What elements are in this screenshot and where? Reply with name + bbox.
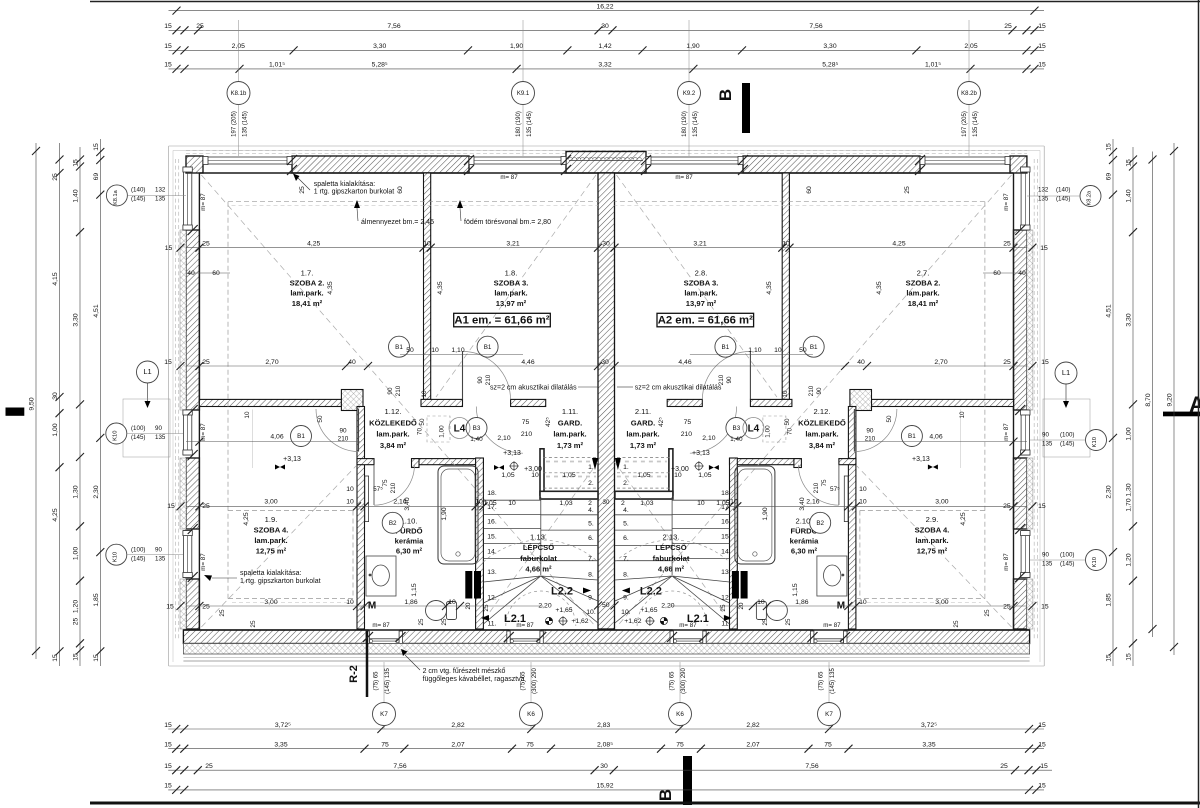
svg-text:40: 40 — [1018, 270, 1026, 277]
svg-text:1,73 m²: 1,73 m² — [630, 441, 657, 450]
svg-text:L2.2: L2.2 — [551, 586, 573, 598]
svg-text:20: 20 — [465, 602, 472, 609]
svg-text:K6: K6 — [527, 711, 535, 718]
svg-text:GARD.: GARD. — [631, 418, 655, 427]
svg-text:13.: 13. — [487, 569, 497, 576]
svg-text:15: 15 — [1106, 143, 1113, 151]
svg-text:K10: K10 — [1092, 437, 1098, 447]
svg-text:lam.park.: lam.park. — [254, 536, 287, 545]
svg-text:3,72⁵: 3,72⁵ — [921, 722, 937, 729]
svg-text:1,05: 1,05 — [637, 472, 650, 479]
svg-text:1,10: 1,10 — [451, 347, 464, 354]
svg-text:(75) 65: (75) 65 — [374, 671, 380, 691]
svg-text:50: 50 — [406, 347, 414, 354]
svg-text:18,41 m²: 18,41 m² — [908, 299, 939, 308]
svg-text:25: 25 — [205, 763, 213, 770]
svg-text:A1 em. = 61,66 m²: A1 em. = 61,66 m² — [454, 315, 549, 327]
svg-text:50: 50 — [419, 418, 426, 426]
svg-text:4,25: 4,25 — [52, 508, 59, 521]
svg-text:25: 25 — [1003, 241, 1011, 248]
svg-text:4,15: 4,15 — [52, 272, 59, 285]
svg-text:SZOBA 4.: SZOBA 4. — [915, 526, 950, 535]
svg-text:B3: B3 — [733, 425, 741, 432]
svg-text:1,20: 1,20 — [73, 600, 80, 613]
svg-text:GARD.: GARD. — [558, 418, 582, 427]
svg-text:9,50: 9,50 — [29, 397, 36, 410]
svg-text:15.: 15. — [487, 533, 497, 540]
svg-text:1,00: 1,00 — [764, 425, 771, 438]
svg-text:15: 15 — [93, 143, 100, 151]
svg-text:210: 210 — [395, 385, 402, 396]
svg-text:2 cm vtg. fűrészelt mészkő: 2 cm vtg. fűrészelt mészkő — [423, 668, 506, 675]
svg-text:B1: B1 — [395, 344, 403, 351]
svg-text:m= 87: m= 87 — [372, 622, 390, 629]
svg-text:m= 87: m= 87 — [200, 553, 207, 571]
svg-text:8.: 8. — [623, 571, 629, 578]
svg-text:1,73 m²: 1,73 m² — [557, 441, 584, 450]
svg-text:12.: 12. — [487, 594, 497, 601]
svg-text:2.9.: 2.9. — [926, 515, 939, 524]
svg-text:(145): (145) — [1060, 561, 1074, 568]
svg-text:1,15: 1,15 — [411, 583, 418, 596]
svg-text:210: 210 — [681, 431, 693, 438]
svg-text:7,56: 7,56 — [387, 23, 400, 30]
svg-text:9,20: 9,20 — [1167, 393, 1174, 406]
svg-text:faburkolat: faburkolat — [653, 554, 690, 563]
svg-text:18.: 18. — [721, 490, 731, 497]
svg-text:135 (145): 135 (145) — [527, 111, 533, 137]
svg-text:25: 25 — [202, 503, 210, 510]
svg-text:42⁵: 42⁵ — [545, 417, 552, 427]
svg-text:16,22: 16,22 — [596, 3, 613, 10]
svg-text:SZOBA 3.: SZOBA 3. — [494, 279, 529, 288]
svg-text:15: 15 — [167, 503, 175, 510]
svg-text:R-2: R-2 — [348, 665, 360, 683]
svg-text:(145): (145) — [1056, 196, 1070, 203]
svg-text:69: 69 — [1106, 173, 1113, 181]
svg-text:6,30 m²: 6,30 m² — [791, 547, 818, 556]
svg-text:1,01⁵: 1,01⁵ — [269, 62, 285, 69]
svg-text:57⁵: 57⁵ — [830, 486, 840, 493]
svg-text:5.: 5. — [588, 520, 594, 527]
svg-text:90: 90 — [339, 428, 347, 435]
svg-text:69: 69 — [93, 173, 100, 181]
svg-text:10: 10 — [531, 472, 539, 479]
svg-text:25: 25 — [1003, 604, 1011, 611]
svg-text:2: 2 — [621, 500, 625, 507]
svg-text:15: 15 — [164, 722, 172, 729]
svg-text:11.: 11. — [721, 620, 730, 627]
svg-text:210: 210 — [338, 436, 349, 443]
svg-text:30: 30 — [603, 499, 610, 506]
svg-text:1,03: 1,03 — [559, 500, 572, 507]
svg-text:K8.2a: K8.2a — [1087, 190, 1093, 206]
svg-text:lam.park.: lam.park. — [290, 289, 323, 298]
svg-text:10: 10 — [346, 486, 354, 493]
svg-text:15,92: 15,92 — [596, 783, 613, 790]
svg-text:LÉPCSŐ: LÉPCSŐ — [523, 543, 554, 552]
svg-text:4,35: 4,35 — [876, 281, 883, 294]
svg-text:15: 15 — [1126, 159, 1133, 167]
svg-text:10: 10 — [774, 347, 782, 354]
svg-text:lam.park.: lam.park. — [915, 536, 948, 545]
svg-text:4,35: 4,35 — [437, 281, 444, 294]
svg-text:50: 50 — [784, 418, 791, 426]
svg-text:lam.park.: lam.park. — [626, 430, 659, 439]
svg-text:90: 90 — [866, 428, 874, 435]
svg-text:1,90: 1,90 — [441, 507, 448, 520]
svg-text:15: 15 — [1041, 359, 1049, 366]
svg-text:B2: B2 — [816, 520, 824, 527]
svg-text:50: 50 — [886, 415, 893, 423]
svg-text:kerámia: kerámia — [395, 537, 424, 546]
svg-text:25: 25 — [219, 609, 226, 617]
svg-text:K10: K10 — [112, 431, 118, 441]
svg-text:15: 15 — [93, 654, 100, 662]
svg-text:1,86: 1,86 — [404, 599, 417, 606]
svg-text:10: 10 — [859, 486, 867, 493]
svg-text:10: 10 — [423, 241, 431, 248]
svg-text:15: 15 — [1040, 763, 1048, 770]
svg-text:10.: 10. — [621, 609, 631, 616]
svg-text:12.: 12. — [721, 594, 731, 601]
svg-text:(145): (145) — [131, 555, 145, 562]
svg-text:15: 15 — [1038, 783, 1046, 790]
svg-text:3,40: 3,40 — [404, 497, 411, 510]
svg-text:10: 10 — [730, 499, 738, 506]
svg-text:7.: 7. — [623, 556, 629, 563]
svg-text:15: 15 — [164, 783, 172, 790]
svg-text:(100): (100) — [1060, 552, 1074, 559]
svg-text:lam.park.: lam.park. — [553, 430, 586, 439]
svg-text:m= 87: m= 87 — [823, 622, 841, 629]
svg-text:SZOBA 3.: SZOBA 3. — [684, 279, 719, 288]
svg-text:70: 70 — [786, 428, 793, 436]
svg-text:90: 90 — [1042, 552, 1049, 559]
svg-text:4.: 4. — [623, 507, 629, 514]
svg-text:m= 87: m= 87 — [1003, 423, 1010, 441]
svg-text:4,51: 4,51 — [93, 304, 100, 317]
svg-text:210: 210 — [865, 436, 876, 443]
svg-text:2.12.: 2.12. — [814, 407, 831, 416]
svg-text:90: 90 — [1042, 432, 1049, 439]
svg-text:135: 135 — [155, 555, 166, 562]
svg-text:L2.1: L2.1 — [687, 613, 709, 625]
svg-text:60: 60 — [397, 186, 404, 194]
svg-text:13.: 13. — [721, 569, 731, 576]
svg-text:L1: L1 — [143, 367, 151, 376]
svg-text:25: 25 — [196, 23, 204, 30]
svg-text:1.7.: 1.7. — [301, 268, 314, 277]
svg-text:3,30: 3,30 — [1126, 313, 1133, 326]
svg-text:lam.park.: lam.park. — [494, 289, 527, 298]
svg-text:4,51: 4,51 — [1106, 304, 1113, 317]
svg-text:kerámia: kerámia — [790, 537, 819, 546]
svg-text:30: 30 — [602, 241, 610, 248]
svg-text:3,00: 3,00 — [935, 599, 948, 606]
svg-text:25: 25 — [73, 618, 80, 626]
svg-text:K10: K10 — [1092, 557, 1098, 567]
svg-text:1,03: 1,03 — [640, 500, 653, 507]
svg-text:10: 10 — [431, 347, 439, 354]
svg-text:+1,65: +1,65 — [555, 607, 572, 614]
svg-text:25: 25 — [762, 618, 769, 625]
svg-text:1,00: 1,00 — [73, 547, 80, 560]
svg-text:SZOBA 4.: SZOBA 4. — [254, 526, 289, 535]
svg-text:180 (190): 180 (190) — [516, 111, 522, 137]
svg-text:(145) 135: (145) 135 — [830, 667, 836, 693]
svg-text:3,84 m²: 3,84 m² — [809, 441, 836, 450]
svg-text:15: 15 — [164, 43, 172, 50]
svg-text:7.: 7. — [588, 556, 594, 563]
svg-text:+1,62: +1,62 — [571, 618, 588, 625]
svg-text:1,40: 1,40 — [1126, 189, 1133, 202]
svg-text:1,40: 1,40 — [73, 189, 80, 202]
svg-text:1.9.: 1.9. — [265, 515, 278, 524]
svg-text:135: 135 — [1038, 196, 1049, 203]
svg-text:25: 25 — [953, 620, 960, 628]
svg-text:75: 75 — [676, 742, 684, 749]
svg-text:15: 15 — [166, 604, 174, 611]
svg-text:+1,65: +1,65 — [640, 607, 657, 614]
svg-text:B: B — [716, 89, 735, 101]
svg-text:3,35: 3,35 — [274, 742, 287, 749]
svg-text:4,46: 4,46 — [521, 359, 534, 366]
svg-text:1,05: 1,05 — [698, 472, 711, 479]
svg-text:210: 210 — [718, 374, 725, 385]
svg-text:1,86: 1,86 — [795, 599, 808, 606]
svg-text:(300) 290: (300) 290 — [681, 667, 687, 693]
svg-text:1.12.: 1.12. — [385, 407, 402, 416]
svg-text:2.: 2. — [588, 480, 594, 487]
svg-text:2,10: 2,10 — [497, 435, 510, 442]
svg-text:2.7.: 2.7. — [917, 268, 930, 277]
svg-text:210: 210 — [521, 431, 533, 438]
svg-text:1.13.: 1.13. — [530, 533, 547, 542]
svg-text:M: M — [368, 601, 376, 612]
svg-text:15: 15 — [1038, 43, 1046, 50]
svg-text:15: 15 — [1126, 653, 1133, 661]
svg-text:135 (145): 135 (145) — [243, 111, 249, 137]
svg-text:9.: 9. — [623, 594, 629, 601]
svg-text:10: 10 — [697, 500, 705, 507]
svg-text:L2.2: L2.2 — [640, 586, 662, 598]
svg-text:m= 87: m= 87 — [1003, 553, 1010, 571]
svg-text:2.11.: 2.11. — [635, 407, 651, 416]
svg-text:10: 10 — [448, 599, 456, 606]
svg-text:2,08⁵: 2,08⁵ — [597, 742, 613, 749]
svg-text:4,66 m²: 4,66 m² — [525, 565, 552, 574]
svg-text:8.: 8. — [588, 571, 594, 578]
svg-text:2,07: 2,07 — [451, 742, 464, 749]
svg-text:90: 90 — [816, 387, 823, 395]
svg-text:15: 15 — [73, 653, 80, 661]
svg-text:13,97 m²: 13,97 m² — [496, 299, 527, 308]
svg-text:(75) 65: (75) 65 — [670, 671, 676, 691]
svg-text:18.: 18. — [487, 490, 497, 497]
svg-text:B1: B1 — [297, 433, 305, 440]
svg-text:10: 10 — [782, 390, 789, 398]
svg-text:faburkolat: faburkolat — [520, 554, 557, 563]
svg-text:1,40: 1,40 — [730, 436, 743, 443]
svg-text:1,00: 1,00 — [52, 423, 59, 436]
svg-text:2.13.: 2.13. — [663, 533, 680, 542]
svg-text:(140): (140) — [131, 187, 145, 194]
svg-text:3,84 m²: 3,84 m² — [380, 441, 407, 450]
svg-text:25: 25 — [250, 620, 257, 628]
svg-text:10: 10 — [244, 411, 251, 419]
svg-text:10: 10 — [346, 499, 354, 506]
svg-text:2.: 2. — [623, 480, 629, 487]
svg-text:L1: L1 — [1062, 368, 1070, 377]
svg-text:B1: B1 — [908, 433, 916, 440]
svg-text:25: 25 — [1000, 763, 1008, 770]
svg-text:20: 20 — [738, 602, 745, 609]
svg-text:40: 40 — [348, 359, 356, 366]
svg-text:15: 15 — [164, 763, 172, 770]
svg-text:2,30: 2,30 — [1106, 485, 1113, 498]
svg-text:2,82: 2,82 — [746, 722, 759, 729]
svg-text:B: B — [656, 789, 675, 801]
svg-text:B3: B3 — [473, 425, 481, 432]
svg-text:135: 135 — [155, 434, 166, 441]
svg-text:3,30: 3,30 — [73, 313, 80, 326]
svg-text:90: 90 — [726, 376, 733, 384]
svg-text:25: 25 — [202, 241, 210, 248]
svg-text:16.: 16. — [721, 518, 731, 525]
svg-text:210: 210 — [485, 374, 492, 385]
svg-text:25: 25 — [720, 604, 727, 612]
svg-text:(75) 65: (75) 65 — [819, 671, 825, 691]
svg-text:3,35: 3,35 — [922, 742, 935, 749]
svg-text:1,15: 1,15 — [792, 583, 799, 596]
svg-text:L4: L4 — [454, 424, 466, 435]
svg-text:1,30: 1,30 — [73, 485, 80, 498]
svg-text:25: 25 — [441, 618, 448, 625]
svg-text:1,90: 1,90 — [510, 43, 523, 50]
svg-text:3,32: 3,32 — [598, 62, 611, 69]
svg-text:A2 em. = 61,66 m²: A2 em. = 61,66 m² — [658, 315, 753, 327]
svg-text:210: 210 — [808, 385, 815, 396]
svg-text:15: 15 — [73, 159, 80, 167]
svg-text:(140): (140) — [1056, 187, 1070, 194]
svg-text:14.: 14. — [721, 549, 731, 556]
svg-text:sz=2 cm akusztikai dilatálás: sz=2 cm akusztikai dilatálás — [635, 385, 722, 392]
svg-text:4,25: 4,25 — [307, 241, 320, 248]
svg-text:135 (145): 135 (145) — [973, 111, 979, 137]
svg-text:1,30: 1,30 — [1126, 483, 1133, 496]
svg-text:10: 10 — [421, 390, 428, 398]
svg-text:4,35: 4,35 — [327, 281, 334, 294]
svg-text:1.8.: 1.8. — [505, 268, 518, 277]
svg-text:132: 132 — [155, 187, 166, 194]
svg-text:K9.2: K9.2 — [683, 91, 696, 97]
svg-text:4,06: 4,06 — [270, 434, 283, 441]
svg-text:(100): (100) — [1060, 432, 1074, 439]
svg-text:25: 25 — [299, 186, 306, 194]
svg-text:m= 87: m= 87 — [500, 174, 518, 181]
svg-text:11.: 11. — [488, 620, 497, 627]
svg-text:10.: 10. — [586, 609, 596, 616]
svg-text:K7: K7 — [825, 711, 833, 718]
svg-text:függőleges kávabéllet, ragaszt: függőleges kávabéllet, ragasztva — [423, 676, 525, 683]
svg-text:30: 30 — [601, 23, 609, 30]
svg-text:2,70: 2,70 — [265, 359, 278, 366]
svg-text:4,06: 4,06 — [929, 434, 942, 441]
svg-text:2,07: 2,07 — [746, 742, 759, 749]
svg-text:90: 90 — [155, 546, 162, 553]
svg-text:15.: 15. — [721, 533, 731, 540]
svg-text:135: 135 — [1042, 441, 1053, 448]
svg-text:210: 210 — [390, 482, 397, 493]
svg-text:15: 15 — [52, 654, 59, 662]
svg-text:4,25: 4,25 — [243, 512, 250, 525]
svg-text:(145): (145) — [1060, 441, 1074, 448]
svg-text:5.: 5. — [623, 520, 629, 527]
svg-text:60: 60 — [993, 270, 1001, 277]
svg-text:1,10: 1,10 — [748, 347, 761, 354]
svg-text:15: 15 — [164, 742, 172, 749]
svg-text:lam.park.: lam.park. — [684, 289, 717, 298]
svg-text:1,05: 1,05 — [483, 500, 496, 507]
svg-text:1,00: 1,00 — [439, 425, 446, 438]
svg-text:5,28⁵: 5,28⁵ — [372, 62, 388, 69]
svg-text:(100): (100) — [131, 546, 145, 553]
svg-text:2,82: 2,82 — [451, 722, 464, 729]
svg-text:3,00: 3,00 — [264, 599, 277, 606]
svg-text:10: 10 — [475, 499, 483, 506]
svg-text:4,25: 4,25 — [892, 241, 905, 248]
svg-text:135: 135 — [155, 196, 166, 203]
svg-text:(300) 290: (300) 290 — [532, 667, 538, 693]
svg-text:lam.park.: lam.park. — [906, 289, 939, 298]
svg-text:25: 25 — [483, 604, 490, 612]
svg-text:5,28⁵: 5,28⁵ — [822, 62, 838, 69]
svg-text:14.: 14. — [487, 549, 497, 556]
svg-text:B1: B1 — [484, 344, 492, 351]
svg-text:18,41 m²: 18,41 m² — [292, 299, 323, 308]
svg-text:75: 75 — [381, 742, 389, 749]
svg-text:57⁵: 57⁵ — [373, 486, 383, 493]
svg-text:4.: 4. — [588, 507, 594, 514]
svg-text:3,21: 3,21 — [506, 241, 519, 248]
svg-text:födém törésvonal bm.= 2,80: födém törésvonal bm.= 2,80 — [464, 219, 551, 226]
svg-text:197 (205): 197 (205) — [232, 111, 238, 137]
svg-text:1,40: 1,40 — [470, 436, 483, 443]
svg-text:25: 25 — [202, 359, 210, 366]
svg-text:1.: 1. — [588, 464, 594, 471]
svg-text:1,70: 1,70 — [1126, 498, 1133, 511]
svg-text:3,21: 3,21 — [693, 241, 706, 248]
svg-text:10: 10 — [859, 599, 867, 606]
svg-text:2: 2 — [588, 500, 592, 507]
svg-text:álmennyezet bm.= 2,45: álmennyezet bm.= 2,45 — [361, 219, 434, 226]
svg-text:30: 30 — [52, 392, 59, 400]
svg-text:3,72⁵: 3,72⁵ — [275, 722, 291, 729]
svg-text:15: 15 — [1038, 23, 1046, 30]
svg-text:50: 50 — [799, 347, 807, 354]
svg-text:(145) 135: (145) 135 — [385, 667, 391, 693]
svg-text:15: 15 — [1038, 503, 1046, 510]
svg-text:M: M — [837, 601, 845, 612]
svg-text:10: 10 — [782, 241, 790, 248]
svg-text:1,90: 1,90 — [686, 43, 699, 50]
svg-text:L2.1: L2.1 — [504, 613, 526, 625]
svg-text:13,97 m²: 13,97 m² — [686, 299, 717, 308]
svg-text:4,66 m²: 4,66 m² — [658, 565, 685, 574]
svg-text:spaletta kialakítása:: spaletta kialakítása: — [314, 181, 376, 188]
svg-text:10: 10 — [508, 500, 516, 507]
